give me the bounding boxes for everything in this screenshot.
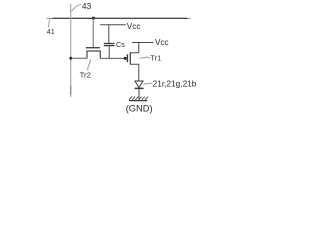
transistor Tr1 gate bar xyxy=(126,54,128,62)
svg-text:Tr2: Tr2 xyxy=(80,71,91,80)
wire: horizontal scan line 41 xyxy=(51,18,189,20)
transistor Tr1 channel bar xyxy=(129,52,131,64)
wire: Tr1 drain stub xyxy=(130,43,139,53)
node: source junction dot on data line xyxy=(69,57,72,60)
wire: diode cathode to ground xyxy=(138,89,140,100)
label 43 leader xyxy=(71,4,81,11)
node: Tr2 gate junction dot on scan line xyxy=(92,17,95,20)
svg-text:41: 41 xyxy=(47,27,55,36)
capacitor Cs bottom stem xyxy=(108,46,110,59)
ground hatching xyxy=(129,97,148,100)
LED diode 21r,21g,21b: triangle xyxy=(135,81,143,88)
capacitor Cs plates xyxy=(104,43,115,45)
label 41 leader xyxy=(48,19,50,28)
label Tr2 leader xyxy=(88,60,91,71)
svg-text:21r,21g,21b: 21r,21g,21b xyxy=(153,79,197,89)
ground line xyxy=(129,100,147,102)
svg-text:(GND): (GND) xyxy=(126,103,153,113)
LED diode cathode bar xyxy=(135,87,144,89)
label Tr1 leader xyxy=(140,57,151,58)
power Vcc supply for Cs: rail xyxy=(100,24,126,26)
wire: Tr2 gate lead xyxy=(92,18,94,47)
svg-text:Tr1: Tr1 xyxy=(150,53,161,62)
svg-text:Vcc: Vcc xyxy=(155,38,169,47)
svg-text:43: 43 xyxy=(82,1,92,11)
node: Tr1 gate dot xyxy=(124,57,127,60)
svg-text:Cs: Cs xyxy=(116,40,125,49)
power Vcc supply for Tr1: rail xyxy=(132,42,154,44)
wire: Tr2 source to data line xyxy=(71,57,87,59)
transistor Tr2 channel xyxy=(87,51,100,58)
wire: vertical data line 43 xyxy=(70,4,72,98)
transistor Tr2 gate bar xyxy=(86,47,100,49)
capacitor Cs top stem xyxy=(108,25,110,44)
wire: Tr1 source stub xyxy=(130,64,139,81)
wire: storage node (Tr2 drain to Tr1 gate) xyxy=(100,57,125,59)
svg-text:Vcc: Vcc xyxy=(127,22,141,31)
label 21r,21g,21b leader xyxy=(144,83,153,84)
